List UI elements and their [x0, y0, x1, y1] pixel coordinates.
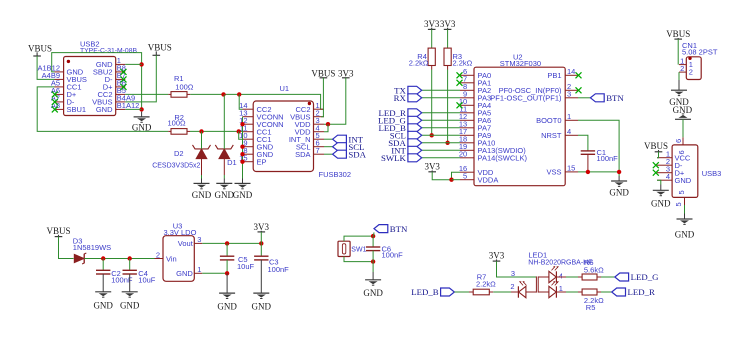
svg-text:D2: D2: [174, 149, 184, 158]
svg-text:GND: GND: [363, 288, 383, 298]
svg-text:GND: GND: [651, 199, 671, 209]
svg-text:VBUS: VBUS: [644, 141, 668, 151]
svg-text:3V3: 3V3: [338, 69, 354, 79]
svg-text:GND: GND: [120, 301, 140, 311]
svg-text:GND: GND: [233, 190, 253, 200]
svg-text:2: 2: [510, 282, 514, 291]
svg-text:R5: R5: [586, 303, 596, 312]
svg-text:VSS: VSS: [546, 168, 561, 177]
svg-text:100Ω: 100Ω: [168, 119, 187, 128]
svg-text:LED_B: LED_B: [411, 287, 438, 297]
svg-text:PA14(SWCLK): PA14(SWCLK): [478, 153, 528, 162]
svg-text:20: 20: [459, 150, 467, 159]
svg-text:SWLK: SWLK: [381, 153, 407, 163]
svg-text:3: 3: [511, 269, 515, 278]
svg-text:3.3V LDO: 3.3V LDO: [164, 228, 197, 237]
svg-text:6: 6: [674, 139, 683, 143]
svg-text:5.6kΩ: 5.6kΩ: [584, 265, 604, 274]
svg-text:10uF: 10uF: [138, 275, 156, 284]
svg-text:B1A12: B1A12: [117, 101, 140, 110]
svg-text:100Ω: 100Ω: [175, 83, 194, 92]
svg-text:5: 5: [677, 190, 686, 194]
svg-text:10uF: 10uF: [237, 262, 255, 271]
svg-text:5.08 2PST: 5.08 2PST: [682, 48, 718, 57]
svg-text:15: 15: [567, 164, 575, 173]
svg-text:SDA: SDA: [295, 150, 310, 159]
svg-text:3V3: 3V3: [254, 222, 270, 232]
svg-text:SDA: SDA: [348, 149, 366, 159]
svg-text:5: 5: [674, 202, 683, 206]
svg-text:GND: GND: [252, 302, 272, 312]
svg-text:GND: GND: [675, 230, 695, 240]
svg-text:NH-B2020RGBA-HF: NH-B2020RGBA-HF: [528, 259, 592, 266]
svg-text:TYPE-C-31-M-08B: TYPE-C-31-M-08B: [80, 48, 137, 55]
svg-text:1: 1: [559, 284, 563, 293]
svg-text:LED1: LED1: [528, 250, 547, 259]
svg-text:VBUS: VBUS: [28, 44, 52, 54]
svg-text:Vout: Vout: [178, 239, 194, 248]
svg-text:GND: GND: [176, 269, 193, 278]
svg-text:STM32F030: STM32F030: [500, 59, 541, 68]
svg-text:VDDA: VDDA: [478, 175, 499, 184]
svg-text:USB3: USB3: [702, 169, 722, 178]
svg-text:GND: GND: [93, 301, 113, 311]
svg-text:VBUS: VBUS: [666, 29, 690, 39]
svg-text:7: 7: [316, 146, 320, 155]
svg-text:6: 6: [677, 150, 686, 154]
svg-text:2: 2: [680, 64, 684, 73]
svg-text:1: 1: [197, 265, 201, 274]
svg-text:GND: GND: [192, 190, 212, 200]
svg-text:3V3: 3V3: [440, 19, 456, 29]
svg-text:GND: GND: [609, 188, 629, 198]
svg-text:GND: GND: [675, 176, 692, 185]
svg-text:LED_G: LED_G: [631, 272, 659, 282]
svg-text:BTN: BTN: [606, 93, 624, 103]
svg-text:2.2kΩ: 2.2kΩ: [453, 59, 473, 68]
svg-text:3V3: 3V3: [489, 251, 505, 261]
svg-text:BTN: BTN: [390, 224, 408, 234]
svg-text:CESD3V3D5x2: CESD3V3D5x2: [152, 163, 200, 170]
svg-text:NRST: NRST: [541, 131, 562, 140]
svg-text:SBU1: SBU1: [67, 105, 87, 114]
svg-text:100nF: 100nF: [268, 265, 290, 274]
svg-text:BOOT0: BOOT0: [536, 116, 561, 125]
svg-text:3V3: 3V3: [424, 162, 440, 172]
svg-text:2.2kΩ: 2.2kΩ: [476, 279, 496, 288]
svg-text:VBUS: VBUS: [311, 69, 335, 79]
svg-text:2.2kΩ: 2.2kΩ: [409, 59, 429, 68]
svg-text:4: 4: [666, 172, 670, 181]
svg-text:14: 14: [567, 67, 575, 76]
svg-text:FUSB302: FUSB302: [319, 170, 352, 179]
svg-text:U1: U1: [280, 84, 290, 93]
svg-text:5: 5: [463, 172, 467, 181]
svg-text:GND: GND: [215, 190, 235, 200]
svg-text:VBUS: VBUS: [46, 226, 70, 236]
svg-text:EP: EP: [257, 157, 267, 166]
svg-text:2: 2: [689, 68, 693, 77]
svg-text:LED_R: LED_R: [628, 287, 655, 297]
svg-text:2: 2: [156, 250, 160, 259]
svg-text:100nF: 100nF: [597, 154, 619, 163]
svg-text:SW1: SW1: [351, 246, 366, 253]
svg-text:PF1-OSC_OUT(PF1): PF1-OSC_OUT(PF1): [490, 93, 562, 102]
svg-text:3: 3: [567, 90, 571, 99]
svg-text:3V3: 3V3: [424, 19, 440, 29]
svg-text:RX: RX: [394, 93, 407, 103]
svg-text:Vin: Vin: [166, 254, 177, 263]
svg-text:GND: GND: [96, 105, 113, 114]
svg-text:PB1: PB1: [547, 71, 561, 80]
svg-text:VBUS: VBUS: [148, 43, 172, 53]
svg-text:D1: D1: [227, 158, 237, 167]
svg-text:1N5819WS: 1N5819WS: [73, 243, 111, 252]
svg-text:4: 4: [567, 127, 571, 136]
svg-text:3: 3: [197, 235, 201, 244]
svg-text:100nF: 100nF: [382, 251, 404, 260]
svg-text:GND: GND: [217, 302, 237, 312]
svg-text:1: 1: [567, 112, 571, 121]
svg-text:4: 4: [559, 272, 563, 281]
